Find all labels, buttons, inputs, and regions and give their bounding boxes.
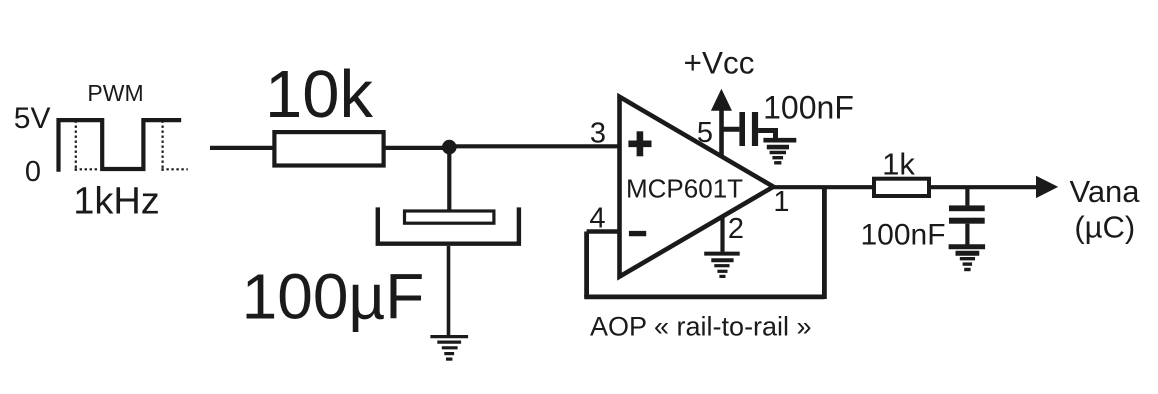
wire: output node down to C3: [965, 187, 969, 205]
wire: op-amp output pin 1: [773, 185, 874, 189]
wire: C1 to ground: [447, 246, 451, 336]
wire: node A down to C1: [447, 147, 451, 211]
op-amp U1 triangle: [620, 97, 774, 277]
wire: node A to op-amp pin 3: [449, 144, 621, 148]
capacitor C2 100nF right plate: [752, 112, 758, 146]
wire: pin 4 input: [587, 229, 621, 234]
svg-text:1k: 1k: [882, 147, 915, 182]
ground at pin 2: [704, 254, 740, 261]
svg-text:5: 5: [697, 117, 713, 149]
svg-text:AOP « rail-to-rail »: AOP « rail-to-rail »: [590, 312, 812, 342]
feedback wire left vertical: [584, 232, 589, 297]
ground below C1: [430, 337, 468, 360]
+Vcc arrow head: [711, 89, 732, 111]
wire: pin 5 to C2: [722, 127, 740, 132]
svg-text:3: 3: [590, 118, 606, 150]
capacitor C3 100nF bottom plate: [949, 218, 985, 224]
svg-text:Vana: Vana: [1069, 174, 1140, 209]
svg-text:5V: 5V: [14, 102, 51, 135]
wire: R2 to output arrow: [929, 185, 1037, 189]
svg-text:10k: 10k: [265, 57, 374, 132]
svg-text:1kHz: 1kHz: [73, 180, 160, 222]
wire: PWM source to R1: [210, 146, 274, 150]
svg-text:(µC): (µC): [1074, 210, 1135, 245]
op-amp + input symbol: [628, 141, 651, 148]
svg-text:1: 1: [773, 186, 789, 218]
wire: C2 to ground step: [758, 131, 775, 140]
svg-text:0: 0: [25, 156, 41, 188]
svg-text:4: 4: [589, 202, 605, 234]
feedback wire bottom: [584, 294, 824, 299]
wire: R1 to node A: [384, 146, 450, 150]
node A junction dot: [442, 140, 457, 155]
output arrow head: [1036, 176, 1058, 198]
ground at C3: [949, 247, 986, 254]
feedback wire right vertical: [822, 187, 827, 299]
PWM waveform: [59, 120, 182, 172]
svg-text:2: 2: [728, 213, 744, 245]
svg-text:MCP601T: MCP601T: [626, 174, 743, 204]
svg-text:PWM: PWM: [87, 80, 143, 106]
svg-text:100nF: 100nF: [763, 90, 854, 126]
capacitor C2 100nF left plate: [739, 112, 745, 146]
wire: pin 2 to ground: [720, 216, 724, 251]
resistor R1 10k body: [274, 132, 383, 165]
PWM dashed vertical 2: [162, 121, 164, 172]
PWM dashed baseline right: [161, 168, 187, 170]
wire: pin 5 Vcc: [719, 109, 724, 156]
svg-text:100nF: 100nF: [860, 218, 945, 251]
PWM dashed baseline left: [75, 168, 100, 170]
capacitor C3 100nF top plate: [949, 205, 985, 211]
ground at C2: [763, 140, 796, 147]
op-amp - input symbol: [629, 231, 646, 236]
svg-text:+Vcc: +Vcc: [684, 44, 755, 80]
capacitor C1 100uF top plate: [405, 211, 494, 223]
capacitor C1 bottom bracket plate: [378, 207, 519, 243]
resistor R2 1k body: [874, 179, 929, 196]
wire: C3 to ground: [965, 224, 969, 245]
PWM dashed vertical 1: [75, 121, 77, 172]
svg-text:100µF: 100µF: [242, 261, 425, 333]
